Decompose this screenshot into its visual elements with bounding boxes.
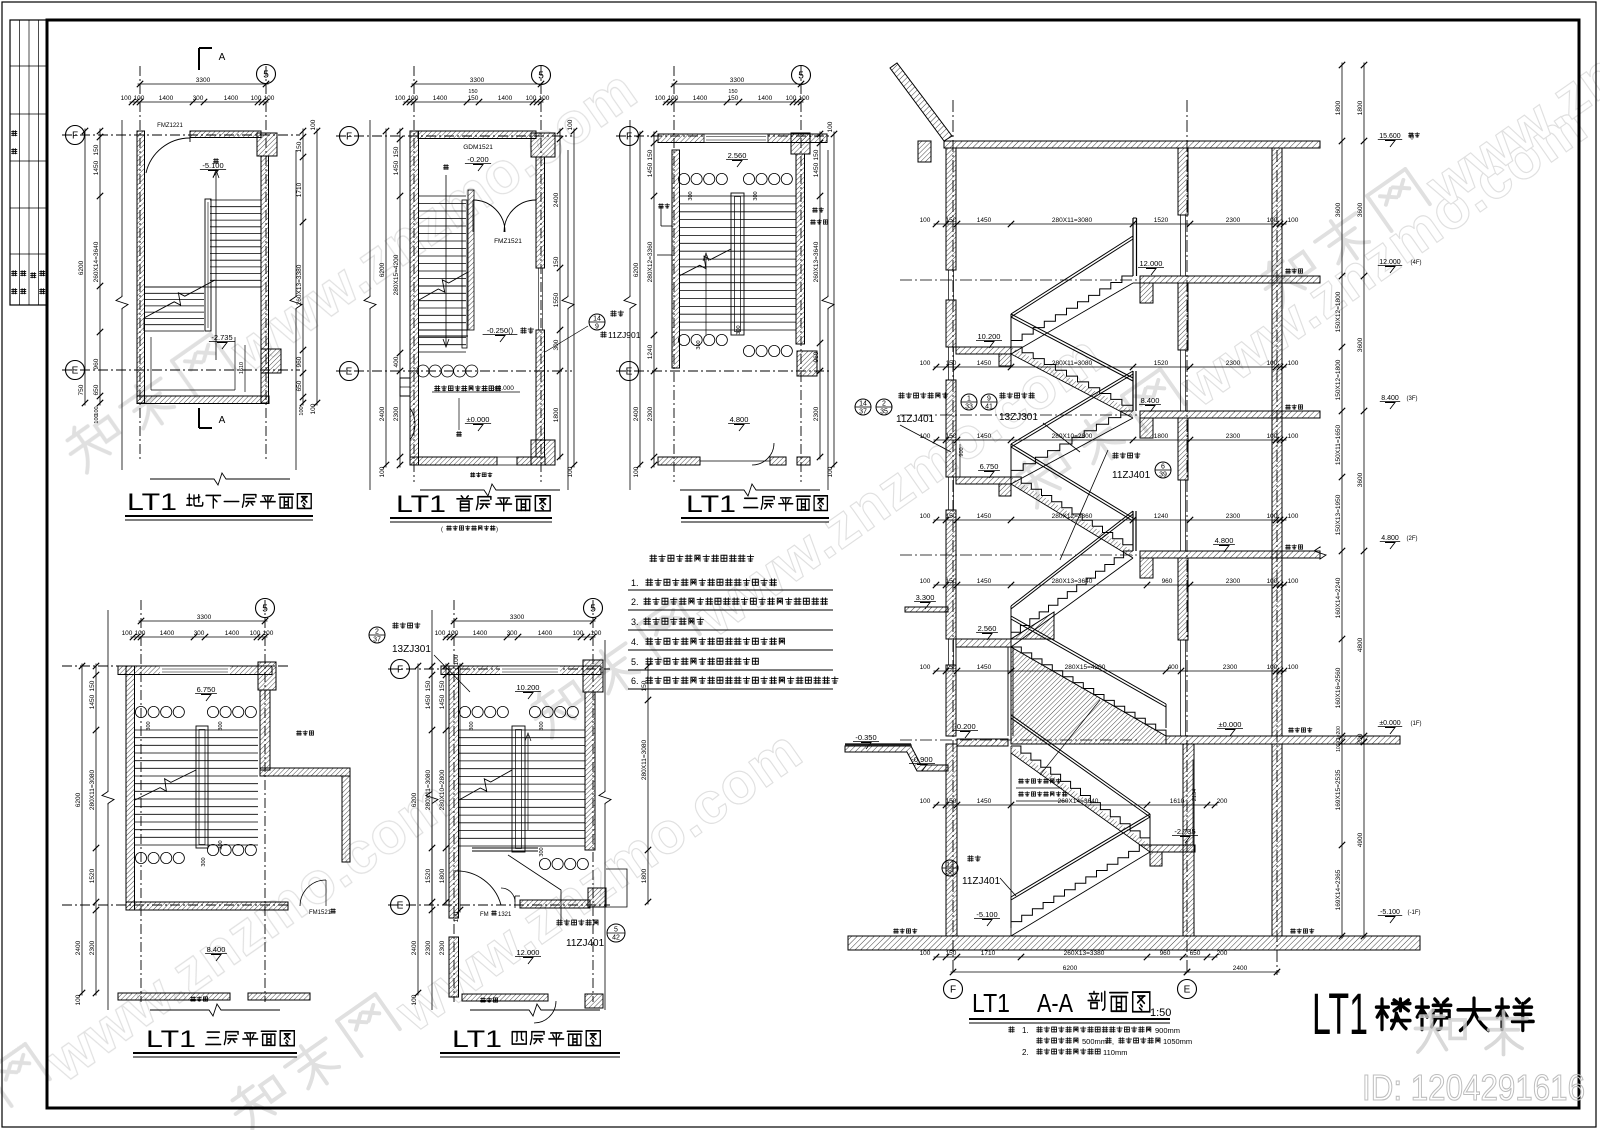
svg-text:2300: 2300	[89, 940, 96, 955]
svg-text:3600: 3600	[1357, 337, 1364, 352]
plan4 grid F	[62, 665, 290, 667]
section roof parapet	[890, 63, 952, 141]
plan4 right dim chain	[445, 664, 447, 905]
svg-text:39: 39	[1159, 472, 1167, 479]
plan1 top wall	[190, 131, 261, 138]
svg-text:-2.735: -2.735	[211, 333, 232, 342]
plan1 bottom wall	[137, 396, 269, 404]
svg-text:E: E	[626, 367, 633, 378]
svg-text:100: 100	[121, 95, 132, 102]
svg-text:960: 960	[93, 358, 100, 369]
svg-text:150: 150	[946, 578, 957, 585]
plan2 callout taijie	[589, 314, 605, 330]
plan3 stair break	[679, 249, 731, 276]
svg-text:5: 5	[262, 604, 268, 615]
svg-text:400: 400	[1168, 664, 1179, 671]
section right dim chain inner	[1341, 63, 1343, 939]
section flight 4.800-2.560 steps	[1011, 551, 1133, 639]
plan5 grid line 5	[592, 600, 594, 1002]
svg-text:12.000: 12.000	[517, 948, 540, 957]
section basement flight -0.200 to -2.735 steps	[1011, 746, 1150, 845]
svg-text:E: E	[1184, 985, 1191, 996]
section dim row basement1	[934, 804, 1218, 806]
svg-text:1800: 1800	[1335, 100, 1342, 115]
svg-text:100: 100	[1267, 360, 1278, 367]
plan1 left wall	[137, 131, 145, 403]
svg-text:1800: 1800	[553, 407, 560, 422]
svg-text:1400: 1400	[224, 95, 239, 102]
grid bubble 5 plan5	[584, 599, 603, 618]
svg-text:6200: 6200	[78, 260, 85, 275]
svg-text:1400: 1400	[473, 630, 488, 637]
section landing 10.200	[956, 347, 1011, 354]
svg-text:1050mm: 1050mm	[1163, 1037, 1192, 1046]
plan4 grid E	[62, 904, 290, 906]
plan1 stair rail	[205, 199, 211, 331]
title block table left	[10, 20, 47, 305]
plan4 right room walls	[260, 768, 350, 776]
section dim row 4800	[934, 584, 1287, 586]
svg-text:300: 300	[696, 340, 702, 349]
svg-text:38: 38	[946, 870, 954, 877]
svg-text:42: 42	[612, 935, 620, 942]
svg-text:1400: 1400	[538, 630, 553, 637]
section roof slab	[944, 141, 1320, 148]
svg-text:150: 150	[468, 89, 477, 95]
svg-text:1450: 1450	[93, 160, 100, 175]
plan2 left shaft bump	[400, 378, 410, 396]
plan5 left dim chain	[431, 664, 433, 913]
svg-text:10.200: 10.200	[978, 332, 1001, 341]
plan3 bottom walls	[658, 457, 700, 465]
svg-text:150: 150	[393, 146, 400, 157]
plan5 right closet outline	[606, 869, 627, 907]
svg-text:5: 5	[590, 604, 596, 615]
svg-text:100: 100	[567, 119, 574, 130]
plan5 circles top	[459, 706, 470, 717]
svg-text:6.750: 6.750	[980, 462, 999, 471]
svg-text:2300: 2300	[1223, 664, 1238, 671]
svg-text:1610: 1610	[1170, 798, 1185, 805]
svg-text:300: 300	[736, 325, 742, 334]
section dim row 6750	[934, 519, 1287, 521]
plan3 viewport	[629, 120, 631, 295]
plan5 callout handrail	[369, 627, 385, 643]
svg-text:3600: 3600	[1335, 202, 1342, 217]
plan3 stair rail	[731, 193, 744, 335]
svg-text:1610: 1610	[239, 362, 245, 374]
svg-text:(1F): (1F)	[1411, 721, 1422, 727]
section cut mark A bottom plan1	[198, 408, 200, 428]
plan4 top wall window	[160, 666, 230, 675]
svg-text:960: 960	[1160, 950, 1171, 957]
svg-text:3300: 3300	[196, 77, 211, 84]
plan2 bottom-right block	[531, 440, 555, 465]
grid bubble E plan3	[620, 362, 639, 381]
section callout start step	[942, 860, 958, 876]
svg-text:3300: 3300	[730, 77, 745, 84]
plan2 left dim chain	[399, 129, 401, 468]
svg-text:100: 100	[250, 630, 261, 637]
plan2 viewport	[369, 120, 371, 295]
section grid line F vertical	[952, 100, 954, 975]
plan4 top dims	[139, 620, 268, 622]
svg-text:12.000: 12.000	[1379, 259, 1401, 266]
svg-text:260X14=3640: 260X14=3640	[1058, 798, 1099, 805]
svg-text:3300: 3300	[197, 614, 212, 621]
section landing support wall 2.560	[1007, 647, 1009, 736]
svg-text:100: 100	[134, 95, 145, 102]
svg-text:2300: 2300	[425, 940, 432, 955]
svg-text:1240: 1240	[647, 344, 654, 359]
svg-text:100: 100	[310, 403, 317, 414]
plan2 interior wall lower	[419, 329, 468, 331]
svg-text:1400: 1400	[159, 95, 174, 102]
svg-text:100: 100	[1288, 360, 1299, 367]
plan2 top wall	[418, 131, 536, 139]
section slab nib 4.800	[1140, 558, 1153, 578]
plan4 bottom strip walls	[118, 993, 230, 1000]
svg-text:150: 150	[946, 798, 957, 805]
plan3 grid F	[616, 135, 832, 137]
svg-text:169X14=2365: 169X14=2365	[1335, 869, 1342, 910]
svg-text:1400: 1400	[498, 95, 513, 102]
svg-text:5: 5	[263, 70, 269, 81]
svg-text:1400: 1400	[693, 95, 708, 102]
section flight 8.400-6.750 rail	[1011, 371, 1133, 444]
svg-text:4.: 4.	[631, 637, 639, 647]
grid bubble F plan2	[340, 127, 359, 146]
svg-text:1450: 1450	[977, 433, 992, 440]
svg-text:280X10=2800: 280X10=2800	[1052, 433, 1093, 440]
plan3 grid E	[616, 370, 832, 372]
svg-text:150: 150	[641, 680, 648, 691]
section notes	[1009, 1027, 1015, 1033]
plan1 door FMZ1221	[189, 137, 191, 142]
section landing 2.560	[956, 639, 1011, 647]
svg-text:2300: 2300	[813, 406, 820, 421]
svg-text:4900: 4900	[1357, 832, 1364, 847]
plan1 top-right column	[257, 133, 277, 156]
svg-text:1550: 1550	[553, 292, 560, 307]
svg-text:3.300: 3.300	[916, 593, 935, 602]
svg-text:37: 37	[373, 637, 381, 644]
plan5 stair rail	[512, 726, 525, 852]
svg-text:LT1: LT1	[396, 491, 446, 518]
svg-text:260X13=3380: 260X13=3380	[1064, 950, 1105, 957]
plan2 stair break	[419, 272, 468, 300]
section landing -2.735	[1150, 845, 1195, 852]
plan1 right mid block	[261, 349, 281, 373]
plan5 viewport	[431, 610, 433, 790]
svg-text:4.800: 4.800	[730, 415, 749, 424]
section bottom grid bubbles	[944, 980, 963, 999]
svg-text:6200: 6200	[379, 262, 386, 277]
plan basement grid E	[62, 369, 300, 371]
svg-text:100: 100	[786, 95, 797, 102]
svg-text:300: 300	[688, 191, 694, 200]
svg-text:2300: 2300	[1226, 513, 1241, 520]
plan3 stair treads	[679, 196, 796, 330]
svg-text:±0.000: ±0.000	[1379, 720, 1400, 727]
svg-text:A-A: A-A	[1037, 988, 1074, 1018]
svg-text:(2F): (2F)	[1407, 536, 1418, 542]
svg-text:100: 100	[920, 798, 931, 805]
svg-text:1520: 1520	[1154, 217, 1169, 224]
section slab nib 12.000	[1140, 283, 1153, 303]
plan2 stair flights	[419, 196, 466, 286]
svg-text:2300: 2300	[647, 406, 654, 421]
section entry flight rail	[1011, 616, 1166, 704]
znzmo logo watermark bottom right	[1415, 1010, 1527, 1055]
section callout stair nosing	[1113, 453, 1119, 459]
plan4 left wall	[126, 666, 135, 910]
svg-text:(: (	[441, 527, 443, 533]
plan3 right dim chain	[819, 132, 821, 460]
svg-text:2400: 2400	[553, 192, 560, 207]
svg-text:1400: 1400	[758, 95, 773, 102]
plan5 bottom break	[470, 1004, 600, 1016]
svg-text:3600: 3600	[1357, 472, 1364, 487]
svg-text:): )	[496, 527, 498, 533]
svg-text:9: 9	[987, 396, 991, 403]
svg-text:150: 150	[439, 680, 446, 691]
grid bubble 5 plan1	[257, 65, 276, 84]
svg-text:(3F): (3F)	[1407, 396, 1418, 402]
plan3 top wall	[658, 134, 827, 143]
svg-text:2: 2	[882, 401, 886, 408]
svg-text:100: 100	[1267, 433, 1278, 440]
plan4 room label	[297, 731, 302, 736]
svg-text:A: A	[219, 415, 226, 426]
svg-text:±0.000: ±0.000	[467, 415, 490, 424]
svg-text:100: 100	[448, 630, 459, 637]
svg-text:100: 100	[408, 95, 419, 102]
plan5 bottom strip walls	[462, 994, 548, 1001]
section flight 4.800-2.560 rail	[1011, 511, 1133, 606]
section dim row basement floor	[934, 956, 1218, 958]
section floor centerlines	[900, 279, 1140, 281]
svg-text:11ZJ401: 11ZJ401	[566, 938, 605, 949]
svg-text:-5.100: -5.100	[1380, 909, 1400, 916]
svg-text:150: 150	[813, 149, 820, 160]
svg-text:1520: 1520	[425, 868, 432, 883]
section flight 12.000-10.200 rail	[1011, 236, 1133, 314]
svg-text:2: 2	[375, 629, 379, 636]
svg-text:E: E	[346, 367, 353, 378]
svg-text:100: 100	[299, 406, 305, 415]
svg-text:150: 150	[296, 141, 303, 152]
svg-text:100: 100	[526, 95, 537, 102]
section floor slab 0.000	[1166, 736, 1400, 744]
section flight 10.200-8.400 rail	[1011, 314, 1133, 378]
grid bubble F plan5	[391, 660, 410, 679]
section flight 10.200-8.400 cut band	[1011, 347, 1133, 418]
section small wedge above 2.560	[1011, 612, 1054, 639]
svg-text:150: 150	[728, 95, 739, 102]
svg-text:LT1: LT1	[972, 988, 1010, 1018]
section flight 6.750-4.800 steps	[1011, 477, 1133, 551]
svg-text:15.600: 15.600	[1379, 133, 1401, 140]
svg-text:400: 400	[393, 356, 400, 367]
svg-text:280X12=3360: 280X12=3360	[647, 241, 654, 282]
svg-text:5.: 5.	[631, 657, 639, 667]
svg-text:100: 100	[827, 121, 834, 132]
svg-text:100: 100	[395, 95, 406, 102]
svg-text:2400: 2400	[75, 940, 82, 955]
plan1 right dim chain	[302, 129, 304, 406]
svg-text:100: 100	[122, 630, 133, 637]
svg-text:±0.000: ±0.000	[494, 385, 514, 392]
svg-text:100: 100	[251, 95, 262, 102]
svg-text:150: 150	[93, 144, 100, 155]
svg-text:4.800: 4.800	[1215, 536, 1234, 545]
plan2 top-right column	[531, 133, 555, 157]
svg-text:8.400: 8.400	[1381, 395, 1399, 402]
plan2 grid E	[336, 370, 572, 372]
svg-text:1520: 1520	[1154, 360, 1169, 367]
svg-text:3.: 3.	[631, 617, 639, 627]
section overall dims bottom	[951, 971, 1190, 973]
plan4 stair treads	[135, 730, 258, 845]
svg-text:LT1: LT1	[127, 489, 177, 516]
section basement stair left support	[1010, 746, 1012, 936]
svg-text:100: 100	[1267, 217, 1278, 224]
svg-text:F: F	[346, 132, 352, 143]
svg-text:FMZ1521: FMZ1521	[494, 238, 522, 245]
svg-text:3300: 3300	[510, 614, 525, 621]
section flight 6.750-4.800 cut band	[1011, 477, 1133, 558]
plan1 stair lower flight	[144, 287, 204, 331]
svg-text:5: 5	[614, 927, 618, 934]
svg-text:300: 300	[146, 721, 152, 730]
svg-text:500mm: 500mm	[1082, 1037, 1107, 1046]
svg-text:2400: 2400	[379, 406, 386, 421]
svg-text:150: 150	[946, 433, 957, 440]
svg-text:GDM1521: GDM1521	[463, 144, 493, 151]
plan1 arrow up	[215, 172, 217, 360]
section exterior grade left	[845, 743, 911, 745]
svg-text:150X12=1800: 150X12=1800	[1335, 291, 1342, 332]
svg-text:2.560: 2.560	[728, 151, 747, 160]
svg-text:100: 100	[920, 664, 931, 671]
section left wall windows	[948, 270, 950, 300]
svg-text:1450: 1450	[425, 694, 432, 709]
plan3 bottom break	[680, 484, 820, 496]
svg-text:169X15=2535: 169X15=2535	[1335, 769, 1342, 810]
grid bubble E plan2	[340, 362, 359, 381]
plan3 circles bottom	[678, 334, 689, 345]
svg-text:1450: 1450	[977, 217, 992, 224]
plan5 top dims	[452, 620, 596, 622]
svg-text:1.: 1.	[1022, 1026, 1029, 1035]
svg-text:1400: 1400	[225, 630, 240, 637]
plan basement grid F	[62, 134, 300, 136]
svg-text:100: 100	[668, 95, 679, 102]
plan1 top dimension row2	[130, 101, 269, 103]
svg-text:150: 150	[425, 680, 432, 691]
svg-text:LT1: LT1	[452, 1026, 502, 1053]
svg-text:100: 100	[1267, 513, 1278, 520]
svg-text:6200: 6200	[411, 792, 418, 807]
svg-text:150X13=1950: 150X13=1950	[1335, 494, 1342, 535]
svg-text:1450: 1450	[977, 798, 992, 805]
plan3 left door	[660, 206, 662, 226]
svg-text:300: 300	[539, 721, 545, 730]
svg-text:280X10=2800: 280X10=2800	[439, 769, 446, 810]
plan1 stair upper flight	[210, 200, 261, 287]
plan1 stair break line	[144, 280, 215, 318]
svg-text:3300: 3300	[470, 77, 485, 84]
svg-text:2400: 2400	[411, 940, 418, 955]
grid bubble 5 plan4	[256, 599, 275, 618]
svg-text:160X16=2560: 160X16=2560	[1335, 667, 1342, 708]
svg-text:(-1F): (-1F)	[1408, 910, 1421, 916]
svg-text:150X11=1650: 150X11=1650	[1335, 425, 1342, 466]
svg-text:750: 750	[78, 384, 85, 395]
plan4 stair break	[135, 770, 196, 800]
svg-text:1400: 1400	[433, 95, 448, 102]
svg-text:100: 100	[1267, 664, 1278, 671]
plan5 left wall	[449, 666, 459, 918]
section dim row 8400	[934, 439, 1287, 441]
svg-text:12.000: 12.000	[1140, 259, 1163, 268]
svg-text:1450: 1450	[977, 360, 992, 367]
svg-text:6.750: 6.750	[197, 685, 216, 694]
svg-text:300: 300	[539, 847, 545, 856]
plan3 grid line 5	[800, 66, 802, 482]
svg-text:33: 33	[965, 404, 973, 411]
svg-text:300: 300	[218, 721, 224, 730]
svg-text:100: 100	[1267, 578, 1278, 585]
section basement flight rail	[1011, 715, 1150, 814]
svg-text:E: E	[72, 366, 79, 377]
svg-text:E: E	[397, 901, 404, 912]
plan3 top-right column	[791, 133, 810, 154]
svg-text:260X14=3640: 260X14=3640	[93, 241, 100, 282]
plan4 top-right column	[258, 662, 276, 690]
plan5 grid E	[388, 904, 610, 906]
plan3 room labels	[659, 204, 664, 209]
plan4 door arc right	[300, 880, 326, 906]
svg-text:1800: 1800	[1154, 433, 1169, 440]
plan2 bottom wall	[410, 457, 497, 465]
svg-text:A: A	[219, 52, 226, 63]
svg-text:11ZJ901: 11ZJ901	[608, 330, 641, 340]
svg-text:1800: 1800	[439, 868, 446, 883]
plan2 right dim chain	[559, 129, 561, 460]
svg-text:(4F): (4F)	[1411, 260, 1422, 266]
svg-text:300: 300	[194, 630, 205, 637]
section room labels	[1286, 269, 1291, 274]
svg-text:2.: 2.	[631, 597, 639, 607]
svg-text:11ZJ401: 11ZJ401	[896, 414, 935, 425]
section basement slab	[848, 936, 1420, 950]
svg-text:1450: 1450	[977, 578, 992, 585]
svg-text:FM: FM	[480, 912, 489, 918]
section floor slab 12.000	[1140, 276, 1320, 283]
svg-text:FMZ1221: FMZ1221	[157, 123, 183, 129]
svg-text:100: 100	[1288, 513, 1299, 520]
svg-text:900mm: 900mm	[1155, 1026, 1180, 1035]
svg-text:280X15=4200: 280X15=4200	[1065, 664, 1106, 671]
plan2 door FMZ1521 double	[473, 200, 505, 232]
svg-text:280X11=3080: 280X11=3080	[425, 770, 432, 811]
svg-text:ID: 1204291616: ID: 1204291616	[1362, 1067, 1585, 1108]
svg-text:5: 5	[798, 71, 804, 82]
svg-text:2300: 2300	[1226, 360, 1241, 367]
section canopy 3.300	[905, 607, 948, 612]
